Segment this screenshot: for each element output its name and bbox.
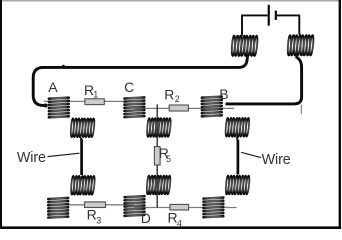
wire battery positive terminal to left coil [242, 15, 268, 35]
wire bottom-left node to R3 [47, 204, 85, 206]
wire node A to R1 [44, 100, 85, 102]
coil at node C [123, 96, 146, 118]
svg-text:D: D [141, 210, 151, 226]
coil under battery left [231, 36, 258, 57]
coil left branch lower [71, 176, 96, 195]
left branch vertical wire (labelled Wire) [80, 140, 83, 176]
left branch coil bottom tail [80, 138, 83, 142]
wire node C to R2 [134, 107, 169, 109]
coil left branch upper [70, 118, 95, 137]
coil at node D [123, 195, 146, 217]
svg-text:B: B [219, 86, 228, 102]
svg-text:R: R [164, 87, 174, 103]
resistor R5 [154, 147, 160, 165]
coil right branch upper [225, 118, 250, 137]
coil at node A [48, 96, 71, 118]
resistor R1 [85, 99, 104, 105]
thin lead stub below right corner [300, 105, 302, 115]
right branch vertical wire (labelled Wire) [237, 137, 238, 175]
resistor R4 [170, 204, 189, 210]
coil bottom-left node [47, 197, 70, 219]
svg-text:C: C [124, 79, 134, 95]
coil bottom-right node [202, 196, 225, 218]
coil right branch lower [225, 176, 250, 195]
thick wire from right battery coil down to node B [226, 57, 302, 104]
wire R3 to node D [106, 204, 134, 206]
resistor R2 [169, 105, 188, 111]
left Wire label with leader [17, 150, 80, 166]
wire R2 to node B [188, 107, 234, 109]
wire battery negative terminal to right coil [277, 15, 299, 34]
wire middle branch lower (R5 down to node D) [156, 165, 158, 208]
svg-text:1: 1 [93, 90, 98, 100]
thick wire from left battery coil around to node A [33, 56, 247, 108]
right Wire label with leader [241, 152, 291, 168]
svg-text:5: 5 [166, 154, 171, 164]
wire R1 to node C [105, 100, 134, 102]
coil middle branch upper [147, 118, 172, 137]
svg-text:2: 2 [175, 94, 180, 104]
svg-text:4: 4 [177, 218, 182, 228]
svg-text:3: 3 [96, 215, 101, 225]
wire node D to R4 [134, 207, 170, 209]
svg-text:Wire: Wire [262, 152, 291, 168]
wire middle branch upper (node C junction down to R5) [156, 104, 158, 146]
coil middle branch lower [146, 176, 171, 195]
svg-text:Wire: Wire [17, 150, 46, 166]
svg-text:R: R [87, 206, 97, 222]
resistor R3 [85, 202, 106, 208]
wire R4 to bottom-right node [189, 207, 237, 209]
coil at node B [201, 95, 224, 117]
battery BT1 [269, 5, 276, 26]
coil under battery right [287, 35, 314, 56]
svg-text:A: A [48, 79, 58, 95]
